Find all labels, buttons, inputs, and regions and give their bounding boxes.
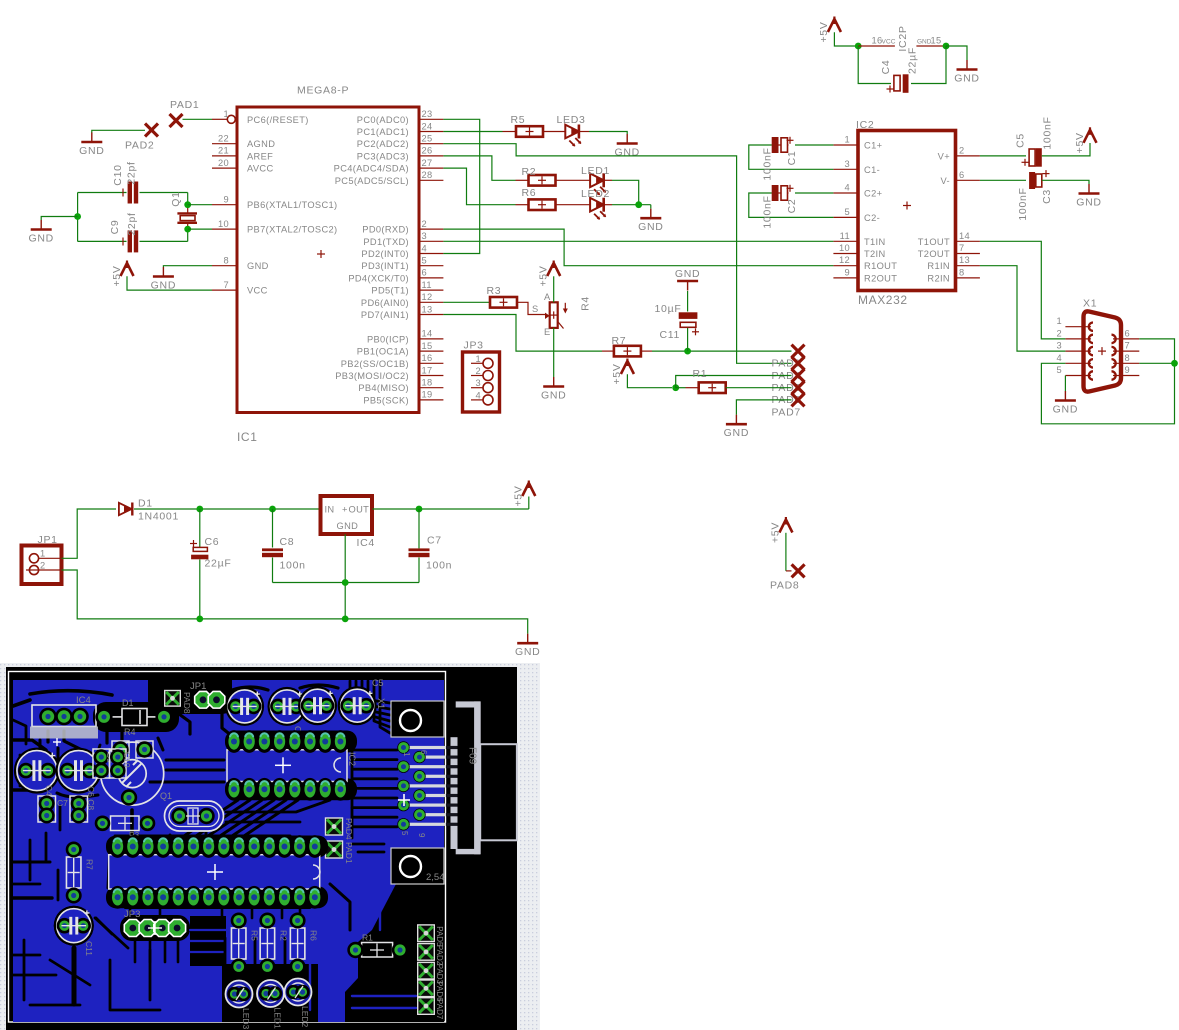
PCB footprint C8 (70, 796, 88, 824)
svg-text:5: 5 (1056, 365, 1062, 375)
svg-text:9: 9 (223, 195, 229, 205)
svg-text:18: 18 (422, 378, 433, 388)
svg-text:PC6(/RESET): PC6(/RESET) (247, 115, 309, 125)
svg-text:LED1: LED1 (273, 1008, 283, 1030)
LED LED1 (581, 165, 610, 195)
pad PAD6 (772, 381, 805, 406)
wire LED2 to ground (604, 205, 651, 209)
svg-text:5: 5 (400, 831, 409, 836)
svg-text:R4: R4 (579, 296, 591, 311)
svg-text:2,54: 2,54 (426, 872, 445, 883)
svg-text:C9: C9 (109, 220, 121, 235)
wire C10 row (pin9 crystal net) (78, 193, 188, 205)
PCB footprint IC4 (30, 695, 98, 746)
PCB trace channels (13, 676, 444, 1022)
svg-text:PD3(INT1): PD3(INT1) (361, 261, 409, 271)
svg-text:100n: 100n (280, 560, 306, 572)
PCB layout image (0, 663, 540, 1030)
svg-text:PAD1: PAD1 (344, 842, 354, 864)
wire LED3 to ground (579, 132, 627, 135)
svg-text:24: 24 (422, 121, 433, 131)
svg-text:C6: C6 (205, 536, 220, 548)
ic IC4 voltage regulator (321, 496, 375, 549)
svg-text:PAD8: PAD8 (770, 580, 799, 592)
wire JP1 pin1 to D1 (62, 509, 117, 558)
pad PAD2 (125, 124, 158, 152)
svg-text:2: 2 (1056, 328, 1062, 338)
svg-text:13: 13 (959, 255, 970, 265)
svg-text:PD2(INT0): PD2(INT0) (361, 249, 409, 259)
svg-text:6: 6 (419, 750, 428, 755)
ground at IC1 pin8 (151, 267, 176, 292)
junction C8 top (269, 506, 276, 513)
junction LED1/LED2 (635, 201, 642, 208)
svg-text:GND: GND (247, 261, 269, 271)
PCB X1 pins (372, 678, 458, 838)
capacitor C9 22pf (109, 212, 138, 252)
svg-text:IC2: IC2 (347, 752, 357, 766)
wire junction up to PAD5 (676, 376, 792, 388)
svg-text:LED3: LED3 (241, 1008, 251, 1030)
label IC2P (897, 25, 909, 51)
svg-text:PC2(ADC2): PC2(ADC2) (357, 139, 409, 149)
svg-text:9: 9 (417, 833, 426, 838)
svg-text:12: 12 (839, 255, 850, 265)
svg-text:C10: C10 (122, 752, 132, 768)
svg-text:C11: C11 (660, 329, 681, 341)
resistor R1 (693, 368, 726, 393)
svg-text:C2+: C2+ (864, 189, 882, 199)
svg-text:7: 7 (1125, 341, 1131, 351)
svg-text:9: 9 (844, 267, 850, 277)
wire +5V to VCC pin7 (127, 276, 212, 290)
svg-text:PC1(ADC1): PC1(ADC1) (357, 127, 409, 137)
wire crystal to IC1 pin9 (188, 204, 212, 206)
svg-text:D1: D1 (122, 698, 134, 708)
svg-text:LED2: LED2 (300, 1006, 310, 1028)
svg-text:2: 2 (40, 561, 46, 571)
wire left vertical C10-C9 (77, 193, 79, 242)
svg-text:C4: C4 (880, 60, 892, 75)
+5V power rail symbol (513, 481, 536, 507)
ground above C11 (flipped) (675, 268, 700, 291)
svg-text:R1OUT: R1OUT (864, 261, 897, 271)
wire PAD2 to ground (92, 130, 145, 133)
diode D1 1N4001 (119, 498, 179, 523)
junction IC4 gnd mid rail (342, 579, 349, 586)
svg-text:C11: C11 (84, 941, 94, 956)
wire pin24 to R5 (443, 131, 516, 133)
svg-text:19: 19 (422, 390, 433, 400)
+5V near R1 (611, 359, 634, 385)
svg-text:T2OUT: T2OUT (918, 249, 950, 259)
svg-text:C3: C3 (1041, 189, 1053, 204)
svg-text:IC1: IC1 (237, 430, 257, 444)
svg-text:C4: C4 (44, 785, 54, 796)
svg-text:R2: R2 (522, 166, 537, 178)
svg-text:R1: R1 (362, 933, 373, 943)
svg-text:+: + (342, 505, 348, 515)
svg-text:22pf: 22pf (125, 161, 137, 184)
svg-text:R3: R3 (487, 285, 502, 297)
svg-text:S: S (532, 304, 539, 314)
svg-text:PB4(MISO): PB4(MISO) (358, 383, 409, 393)
svg-text:26: 26 (422, 146, 433, 156)
svg-text:6: 6 (959, 170, 965, 180)
wire R4 E to ground (553, 328, 555, 377)
svg-text:3: 3 (475, 378, 481, 388)
wire R3 to R4 wiper (517, 302, 546, 314)
pad PAD3 (772, 345, 805, 370)
+5V at PAD8 (770, 517, 793, 543)
svg-text:R6: R6 (309, 930, 319, 941)
wire R7 to PAD3 (641, 350, 792, 352)
svg-text:5: 5 (422, 256, 428, 266)
junction GND15 (943, 43, 950, 50)
svg-text:PC5(ADC5/SCL): PC5(ADC5/SCL) (335, 176, 409, 186)
svg-text:4: 4 (1056, 353, 1062, 363)
PCB footprint C3 (225, 687, 264, 741)
svg-text:14: 14 (422, 329, 433, 339)
svg-text:4: 4 (844, 183, 850, 193)
wire PC2 to PAD4 (443, 144, 791, 364)
crystal Q1 (170, 191, 197, 229)
wire IC1 pin8 to ground (163, 266, 212, 267)
svg-text:3: 3 (422, 231, 428, 241)
svg-text:1: 1 (40, 549, 46, 559)
wire pin27 to R6 (443, 168, 528, 205)
PCB footprint C7 (38, 796, 68, 824)
svg-text:15: 15 (422, 341, 433, 351)
resistor R5 (511, 114, 544, 137)
svg-text:V+: V+ (938, 151, 950, 161)
ground IC2 power (954, 60, 979, 85)
svg-text:C1+: C1+ (864, 141, 882, 151)
wire PD1 TXD to T1IN (443, 240, 833, 242)
svg-text:R4: R4 (124, 727, 136, 737)
svg-text:PAD1: PAD1 (170, 99, 199, 111)
wire +5V to R4 A (553, 276, 555, 302)
svg-text:13: 13 (422, 304, 433, 314)
svg-text:25: 25 (422, 134, 433, 144)
svg-text:PB2(SS/OC1B): PB2(SS/OC1B) (341, 359, 409, 369)
svg-text:IC4: IC4 (357, 537, 375, 549)
svg-text:MEGA8-P: MEGA8-P (297, 85, 349, 97)
svg-text:100nF: 100nF (761, 147, 773, 180)
svg-text:R2OUT: R2OUT (864, 273, 897, 283)
svg-text:X1: X1 (1083, 298, 1097, 310)
svg-text:6: 6 (422, 268, 428, 278)
LED LED3 (557, 114, 586, 146)
svg-text:PAD7: PAD7 (772, 406, 801, 418)
svg-text:9: 9 (1125, 365, 1131, 375)
wire PC0/INT0 net (443, 119, 479, 253)
svg-text:AREF: AREF (247, 151, 273, 161)
svg-text:C1-: C1- (864, 165, 880, 175)
PCB footprint C1 (298, 686, 337, 725)
svg-text:PAD8: PAD8 (182, 692, 192, 714)
ground LED1/LED2 (638, 209, 663, 234)
svg-text:PB7(XTAL2/TOSC2): PB7(XTAL2/TOSC2) (247, 225, 338, 235)
svg-text:VCC: VCC (247, 286, 268, 296)
svg-text:PB5(SCK): PB5(SCK) (363, 395, 409, 405)
svg-text:100nF: 100nF (1041, 116, 1053, 149)
junction VCC16 (855, 43, 862, 50)
svg-text:PD0(RXD): PD0(RXD) (362, 225, 409, 235)
svg-text:C2-: C2- (864, 213, 880, 223)
svg-text:21: 21 (218, 146, 229, 156)
PCB footprint LED1 (257, 980, 284, 1029)
PCB footprint R2 (259, 913, 288, 975)
svg-text:T1OUT: T1OUT (918, 237, 950, 247)
svg-text:PAD7: PAD7 (435, 999, 444, 1020)
junction C11 bottom (684, 348, 691, 355)
+5V at R4 top (537, 261, 560, 287)
connector JP3 (463, 340, 500, 413)
PCB pad PAD8 (165, 691, 192, 714)
svg-text:1: 1 (402, 752, 411, 757)
svg-text:F09: F09 (467, 747, 478, 765)
svg-text:20: 20 (218, 158, 229, 168)
ground xtal (28, 220, 53, 245)
svg-text:22µF: 22µF (906, 47, 918, 74)
svg-text:1: 1 (844, 135, 850, 145)
svg-text:R5: R5 (250, 930, 260, 941)
pad PAD5 (772, 369, 805, 394)
svg-text:JP3: JP3 (124, 909, 140, 920)
PCB footprint R7 (66, 842, 95, 904)
svg-text:8: 8 (1125, 353, 1131, 363)
wire PAD1 to IC1 pin1 (183, 118, 213, 120)
svg-text:22pf: 22pf (126, 212, 138, 235)
svg-text:11: 11 (840, 231, 850, 241)
PCB footprint C9 (93, 749, 115, 778)
capacitor C8 100n (262, 509, 306, 583)
svg-text:4: 4 (475, 390, 481, 400)
svg-text:15: 15 (931, 36, 942, 46)
svg-text:23: 23 (422, 109, 433, 119)
ground PAD7 (724, 415, 749, 440)
ground LED3 (614, 134, 639, 159)
svg-text:1: 1 (475, 354, 481, 364)
svg-text:6: 6 (1125, 328, 1131, 338)
svg-text:R2IN: R2IN (927, 273, 950, 283)
connector JP1 (22, 534, 62, 584)
svg-text:8: 8 (959, 267, 965, 277)
svg-text:PD6(AIN0): PD6(AIN0) (361, 298, 409, 308)
wire V+ to C5 (980, 155, 1026, 157)
wire C1 to pin1/pin3 (749, 145, 834, 169)
svg-text:7: 7 (223, 280, 229, 290)
svg-text:T2IN: T2IN (864, 249, 886, 259)
svg-text:JP3: JP3 (464, 340, 484, 352)
wire +5V to VCC pin16 (834, 32, 855, 46)
wire PAD7 to ground (736, 400, 791, 415)
svg-text:R6: R6 (522, 187, 537, 199)
svg-text:C2: C2 (786, 199, 798, 214)
svg-text:100n: 100n (426, 560, 452, 572)
resistor R2 (522, 166, 556, 186)
svg-text:27: 27 (422, 158, 433, 168)
svg-text:C8: C8 (280, 536, 295, 548)
svg-text:PD5(T1): PD5(T1) (371, 286, 409, 296)
svg-text:100nF: 100nF (761, 195, 773, 228)
PCB pads PAD5 PAD2 PAD3 PAD6 PAD7 (418, 925, 444, 1020)
svg-text:IN: IN (325, 505, 335, 515)
PCB footprint IC2 (225, 730, 357, 801)
svg-text:PC0(ADC0): PC0(ADC0) (357, 115, 409, 125)
wire JP1 pin2 to bottom rail (62, 570, 528, 634)
svg-text:8: 8 (223, 256, 229, 266)
svg-text:100nF: 100nF (1017, 187, 1029, 220)
PCB footprint C2 (268, 687, 307, 737)
connector X1 DB9 (1056, 298, 1139, 392)
PCB footprint LED3 (226, 981, 253, 1030)
PCB footprint R1 (347, 933, 408, 959)
svg-text:1N4001: 1N4001 (138, 511, 179, 523)
svg-text:X1: X1 (376, 698, 386, 709)
+5V at C5 (1074, 127, 1097, 153)
ground R4 (541, 377, 566, 402)
capacitor C6 22uF (190, 509, 231, 619)
svg-text:C7: C7 (57, 798, 68, 808)
junction X1 pin8 (1171, 360, 1178, 367)
PCB mounting hole bottom (391, 848, 445, 884)
junction R1 left (672, 384, 679, 391)
capacitor C7 100n (409, 509, 453, 583)
wire PD7 to R7 row (443, 315, 613, 352)
wire D1 to IC4 (134, 508, 320, 510)
svg-text:10: 10 (218, 219, 229, 229)
PCB footprint C11 (54, 906, 94, 957)
pad PAD4 (772, 357, 805, 382)
svg-text:2: 2 (422, 219, 428, 229)
svg-text:LED1: LED1 (581, 165, 610, 177)
PCB footprint R6 (290, 913, 319, 975)
wire C3 to ground (1042, 180, 1089, 184)
svg-text:LED2: LED2 (581, 188, 610, 200)
resistor R6 (522, 187, 556, 210)
svg-text:AVCC: AVCC (247, 164, 274, 174)
wire R6 to LED2 (556, 204, 591, 206)
wire V- to C3 (980, 179, 1026, 181)
ground at PAD2 (79, 133, 104, 158)
wire xtal gnd tap (41, 217, 77, 221)
junction xtal gnd tap (74, 213, 81, 220)
svg-text:R2: R2 (278, 930, 288, 941)
svg-text:PD1(TXD): PD1(TXD) (363, 237, 409, 247)
wire X1 pin5 to ground (1064, 376, 1066, 392)
wire pin26 to R2 (443, 156, 528, 180)
capacitor C2 100nF (761, 185, 798, 229)
PCB footprint IC1 (106, 835, 328, 909)
svg-text:A: A (544, 292, 551, 302)
IC2 power pin 15 GND (916, 36, 946, 47)
svg-text:16: 16 (422, 353, 433, 363)
capacitor C4 22uF (880, 47, 919, 93)
PCB footprint C5 (338, 686, 377, 725)
junction C6 bottom (196, 616, 203, 623)
wire junction to R1 (676, 387, 699, 389)
svg-text:1: 1 (223, 109, 229, 119)
PCB footprint Q1 (160, 791, 224, 831)
svg-text:5: 5 (844, 207, 850, 217)
wire C9 row (pin10 crystal net) (78, 229, 188, 241)
LED LED2 (581, 188, 610, 220)
svg-text:IC4: IC4 (76, 695, 91, 706)
svg-text:R5: R5 (511, 114, 526, 126)
PCB footprint trimpot R4 (101, 741, 164, 806)
svg-text:MAX232: MAX232 (858, 293, 908, 307)
svg-text:14: 14 (959, 231, 970, 241)
wire mid rail C8-C7 (273, 582, 420, 584)
svg-text:7: 7 (959, 243, 965, 253)
PCB footprint JP3 (124, 909, 186, 937)
svg-text:IC2: IC2 (856, 119, 874, 131)
PCB mounting hole top (391, 701, 444, 737)
capacitor C5 100nF (1014, 116, 1053, 166)
svg-text:10: 10 (839, 243, 850, 253)
wire C5 to +5V (1042, 143, 1090, 156)
svg-text:LED3: LED3 (557, 114, 586, 126)
svg-text:PC4(ADC4/SDA): PC4(ADC4/SDA) (334, 164, 409, 174)
PCB pad PAD1 (326, 841, 355, 864)
svg-text:3: 3 (1056, 341, 1062, 351)
svg-text:V-: V- (941, 176, 950, 186)
capacitor C3 100nF (1017, 170, 1053, 221)
wire LED1 to junction (604, 180, 639, 204)
svg-text:PAD2: PAD2 (435, 945, 444, 966)
svg-text:1: 1 (1056, 316, 1062, 326)
svg-text:R7: R7 (85, 859, 95, 870)
svg-text:Q1: Q1 (160, 791, 172, 801)
junction IC4 gnd bottom rail (342, 616, 349, 623)
IC2 power pin 16 VCC (858, 36, 895, 47)
ground X1 pin5 (1053, 391, 1078, 416)
wire R1 to PAD6 (726, 387, 792, 389)
junction crystal pin10 (184, 226, 191, 233)
svg-text:2: 2 (475, 366, 481, 376)
svg-text:C10: C10 (112, 164, 124, 185)
wire +5V to PAD8 (786, 533, 792, 571)
wire IC4 gnd down (344, 534, 346, 619)
capacitor C10 22pf (112, 161, 138, 203)
PCB pad PAD4 (326, 818, 355, 840)
svg-text:JP1: JP1 (38, 534, 58, 546)
svg-text:R1: R1 (693, 368, 708, 380)
svg-text:PB1(OC1A): PB1(OC1A) (357, 347, 409, 357)
svg-text:28: 28 (422, 170, 433, 180)
ic U IC1 MEGA8-P microcontroller (212, 85, 443, 445)
wire pin12 to R3 (443, 301, 490, 303)
PCB footprint R3 (95, 816, 156, 841)
ic U IC2 MAX232 (833, 119, 980, 307)
svg-text:17: 17 (422, 365, 433, 375)
wire X1 pin4-6-8 loop (1041, 339, 1174, 424)
PCB connector F09 DB9 (451, 701, 517, 854)
svg-text:PB6(XTAL1/TOSC1): PB6(XTAL1/TOSC1) (247, 200, 338, 210)
wire crystal to IC1 pin10 (188, 228, 212, 230)
svg-text:C5: C5 (1014, 133, 1026, 148)
svg-text:R1IN: R1IN (927, 261, 950, 271)
resistor R3 (487, 285, 518, 308)
PCB footprint JP1 (190, 681, 225, 708)
+5V symbol at IC1 VCC (111, 261, 134, 287)
junction C6 top (196, 506, 203, 513)
svg-text:T1IN: T1IN (864, 237, 886, 247)
svg-text:PC3(ADC3): PC3(ADC3) (357, 151, 409, 161)
capacitor C11 10uF (655, 291, 700, 351)
